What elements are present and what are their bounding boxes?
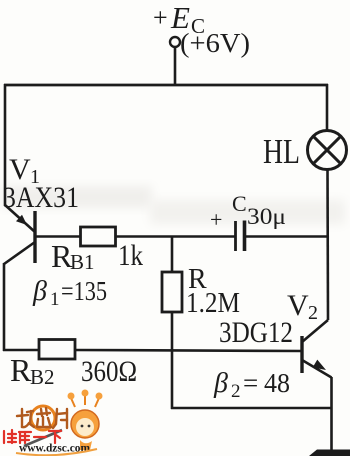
resistor RB1 [81, 227, 116, 246]
svg-text:HL: HL [263, 132, 300, 171]
svg-text:C: C [232, 191, 247, 216]
label V2 [287, 289, 318, 324]
svg-text:48: 48 [264, 368, 290, 398]
svg-text:2: 2 [231, 381, 241, 402]
watermark text zhao-xin-pian (hand-drawn strokes) [17, 408, 67, 428]
scan haze band behind 3AX31 [2, 186, 152, 208]
label RB1 [51, 238, 95, 274]
watermark mascot [68, 390, 103, 451]
svg-text:3DG12: 3DG12 [219, 316, 293, 349]
svg-text:+: + [153, 3, 168, 32]
wire: top rail down to lamp [326, 84, 329, 131]
label V1 [9, 153, 40, 188]
wire: capacitor to right rail [244, 235, 329, 238]
svg-text:(+6V): (+6V) [180, 28, 250, 58]
wire: V2 emitter down to ground [330, 377, 333, 451]
svg-text:1.2M: 1.2M [186, 288, 240, 319]
transistor V2 [302, 320, 332, 378]
resistor R [162, 272, 182, 312]
lamp HL [308, 131, 347, 170]
svg-text:R: R [10, 352, 32, 388]
label +EC [153, 0, 205, 38]
wire: left rail to V1 emitter [4, 84, 7, 206]
label beta2=48 [213, 368, 290, 402]
wire: terminal to top rail [174, 47, 177, 86]
svg-text:1k: 1k [118, 239, 143, 272]
ground [309, 450, 350, 456]
svg-text:+: + [210, 207, 222, 232]
power terminal +EC [170, 37, 180, 47]
svg-text:30μ: 30μ [247, 204, 286, 229]
watermark pencil [24, 430, 62, 446]
ground rail [171, 407, 332, 410]
watermark text weiku-yixia [4, 430, 61, 443]
wire: lamp down to V2 collector [326, 170, 329, 321]
svg-text:3AX31: 3AX31 [3, 181, 79, 214]
svg-text:360Ω: 360Ω [81, 355, 137, 388]
wire: R down to ground rail [171, 311, 174, 409]
svg-text:=: = [243, 368, 258, 398]
wire: V1 collector to RB2 [3, 349, 40, 352]
svg-text:β: β [32, 276, 47, 307]
svg-text:=135: =135 [61, 276, 107, 306]
svg-text:B1: B1 [70, 250, 95, 274]
watermark magnifier circle [31, 406, 55, 430]
wire: node A down to R [171, 237, 174, 274]
top rail [4, 84, 328, 87]
label beta1=135 [32, 276, 107, 310]
transistor V1 [4, 205, 35, 264]
scan haze band near 30u [150, 200, 345, 224]
svg-text:1: 1 [50, 289, 60, 310]
label RB2 [10, 352, 55, 389]
capacitor C [236, 221, 245, 252]
watermark swoosh [16, 449, 97, 455]
resistor RB2 [39, 340, 75, 360]
wire: V1 base to RB1 [35, 235, 81, 238]
wire: RB2 to V2 base [74, 350, 302, 351]
svg-text:B2: B2 [30, 365, 55, 389]
svg-text:β: β [213, 368, 228, 399]
svg-text:2: 2 [308, 302, 318, 324]
wire: RB1 to capacitor (node A) [116, 235, 237, 238]
wire: V1 collector down to RB2 [3, 263, 6, 351]
